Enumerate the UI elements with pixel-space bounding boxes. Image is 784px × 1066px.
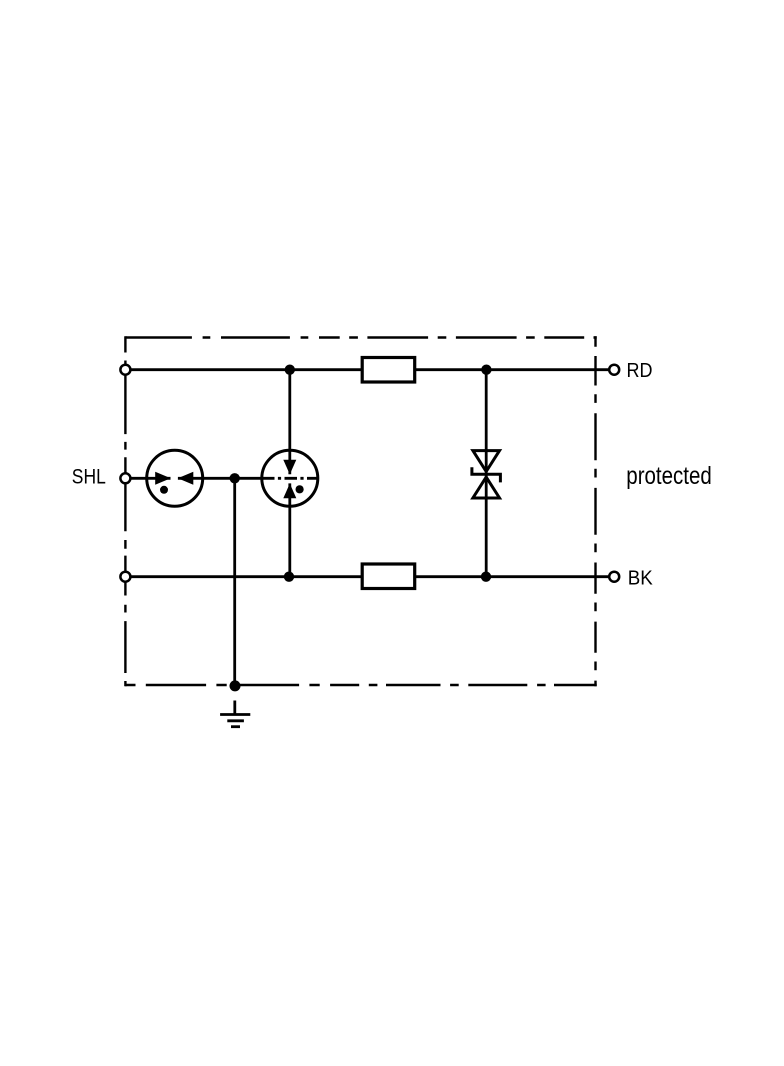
ground symbol bar 3 xyxy=(231,725,240,728)
ground symbol stub xyxy=(233,701,236,715)
terminal RD (open circle) xyxy=(609,365,619,375)
right arrester electrode arrow (top, pointing down) xyxy=(283,460,296,475)
svg-text:RD: RD xyxy=(627,359,653,382)
wire SHL from left spark gap to right arrester xyxy=(178,477,261,480)
svg-text:BK: BK xyxy=(628,567,653,590)
enclosure border right (dash-dot) xyxy=(594,336,596,686)
terminal top-left (open circle on enclosure edge) xyxy=(120,365,130,375)
wire dash-dot shield electrode line through right arrester xyxy=(262,477,319,480)
terminal BK (open circle) xyxy=(609,572,619,582)
right arrester gas-filled indicator dot xyxy=(296,485,304,493)
svg-text:protected: protected xyxy=(626,462,712,490)
suppressor diode zener bar with hooks xyxy=(472,467,501,482)
enclosure border left (dash-dot) xyxy=(124,336,126,686)
wire right arrester vertical upper (to top rail) xyxy=(288,370,291,475)
gas discharge tube (left spark gap) body circle xyxy=(147,450,203,506)
suppressor diode (bidirectional TVS) top triangle xyxy=(473,451,500,472)
left spark gap gas-filled indicator dot xyxy=(160,486,168,494)
ground symbol bar 2 xyxy=(227,719,244,722)
junction SHL line / earth branch xyxy=(230,473,240,483)
left spark gap electrode arrow (right, pointing left) xyxy=(178,472,194,485)
gas discharge tube (right, shield arrester) body circle xyxy=(262,450,318,506)
terminal bottom-left (open circle on enclosure edge) xyxy=(120,572,130,582)
wire suppressor diode vertical branch xyxy=(485,370,488,577)
resistor (top, unmarked) xyxy=(362,358,415,383)
junction top rail / suppressor diode xyxy=(481,365,491,375)
label protected xyxy=(626,462,712,490)
suppressor diode bottom triangle xyxy=(473,477,500,498)
wire top rail left segment xyxy=(128,368,361,371)
junction earth branch / enclosure edge xyxy=(230,680,241,691)
junction top rail / right arrester xyxy=(285,365,295,375)
wire SHL from terminal into left spark gap xyxy=(128,477,171,480)
junction bottom rail / suppressor diode xyxy=(481,572,491,582)
wire top rail right segment xyxy=(416,368,610,371)
ground symbol bar 1 xyxy=(220,713,250,716)
junction bottom rail / right arrester xyxy=(284,572,294,582)
enclosure border bottom (dash-dot) xyxy=(125,684,597,686)
enclosure border top (dash-dot) xyxy=(126,336,597,338)
label BK xyxy=(628,567,653,590)
right arrester electrode arrow (bottom, pointing up) xyxy=(283,484,296,499)
resistor (bottom, unmarked) xyxy=(362,564,415,589)
wire right arrester vertical lower (to bottom rail) xyxy=(288,483,291,576)
wire bottom rail left segment xyxy=(128,575,361,578)
label SHL xyxy=(72,465,106,489)
terminal SHL (open circle on enclosure edge) xyxy=(120,473,130,483)
svg-text:SHL: SHL xyxy=(72,465,106,489)
left spark gap electrode arrow (left, pointing right) xyxy=(155,472,171,485)
wire bottom rail right segment xyxy=(416,575,610,578)
label RD xyxy=(627,359,653,382)
wire earth branch from SHL junction down to enclosure edge xyxy=(233,478,236,686)
